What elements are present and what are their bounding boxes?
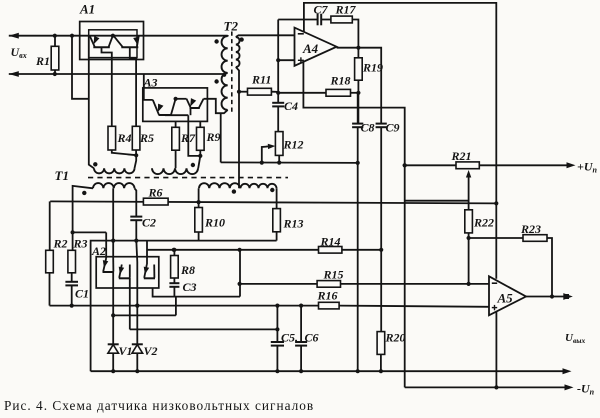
svg-text:R15: R15 [323,268,344,282]
svg-text:R22: R22 [473,216,494,230]
svg-text:R11: R11 [251,73,271,87]
svg-text:R4: R4 [117,131,132,145]
svg-text:R5: R5 [139,131,154,145]
svg-text:R1: R1 [35,54,50,68]
svg-text:R21: R21 [451,149,472,163]
svg-text:C1: C1 [75,287,89,301]
svg-text:V2: V2 [144,344,158,358]
svg-text:A4: A4 [302,41,319,56]
svg-text:C4: C4 [284,99,298,113]
svg-text:R12: R12 [283,138,304,152]
svg-text:T1: T1 [55,168,69,183]
svg-text:C9: C9 [386,121,400,135]
svg-text:C7: C7 [314,3,329,17]
svg-text:R3: R3 [73,237,88,251]
svg-text:R6: R6 [148,186,163,200]
svg-text:R14: R14 [320,235,341,249]
svg-text:R8: R8 [180,263,195,277]
svg-text:A1: A1 [79,2,95,17]
svg-text:C3: C3 [183,280,197,294]
svg-text:C6: C6 [305,331,319,345]
svg-text:R18: R18 [330,74,351,88]
svg-text:R23: R23 [520,222,541,236]
svg-text:R7: R7 [180,131,196,145]
svg-text:R19: R19 [362,61,383,75]
svg-text:R13: R13 [283,217,304,231]
svg-text:C8: C8 [361,121,375,135]
svg-text:T2: T2 [224,19,239,34]
svg-text:C5.: C5. [281,331,298,345]
svg-text:R16: R16 [317,289,338,303]
svg-text:A3: A3 [143,76,158,90]
svg-text:A5: A5 [497,291,514,306]
svg-text:R9: R9 [206,130,221,144]
svg-text:R20: R20 [385,331,406,345]
svg-text:A2: A2 [91,244,106,258]
svg-text:V1: V1 [119,344,133,358]
svg-text:R10: R10 [204,216,225,230]
svg-text:R2: R2 [53,237,68,251]
svg-text:R17: R17 [335,3,357,17]
svg-text:C2: C2 [142,216,156,230]
svg-text:Рис. 4. Схема датчика низковол: Рис. 4. Схема датчика низковольтных сигн… [4,398,314,413]
